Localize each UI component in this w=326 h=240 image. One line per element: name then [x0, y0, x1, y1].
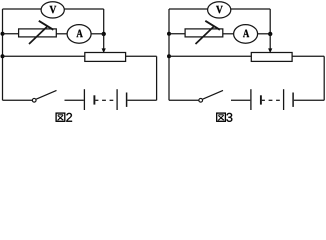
wire battery to right rail fig3: [294, 99, 324, 101]
wire top left segment fig3: [169, 8, 208, 10]
wire ammeter to node fig3: [258, 33, 271, 35]
wire battery to right rail: [127, 99, 156, 101]
wire right rail: [156, 56, 158, 100]
resistor R1 rheostat body fig3: [185, 29, 223, 37]
label Fig2 glyph tu: [56, 113, 65, 121]
wire rheostat to ammeter: [56, 33, 67, 35]
wire switch to battery: [65, 99, 84, 101]
wire slide row left fig3: [169, 55, 251, 57]
battery B1 short plate 1 fig3: [260, 95, 262, 104]
resistor R1 arrow shaft: [29, 26, 47, 44]
wiper wire down: [103, 34, 105, 49]
wire top right segment fig3: [231, 8, 270, 10]
wire right upper rail fig3: [269, 9, 271, 34]
node junction dot left lower fig3: [167, 54, 171, 58]
wire ammeter row left fig3: [169, 33, 185, 35]
wire slide row right: [126, 55, 157, 57]
battery B1 short plate 2 fig3: [292, 93, 294, 107]
wire rheostat to ammeter fig3: [223, 33, 234, 35]
label Fig3 digit: [226, 113, 232, 122]
label Fig3 glyph tu: [217, 113, 226, 121]
resistor R1 arrow head fig3: [205, 21, 220, 30]
wire bottom left: [3, 99, 33, 101]
ammeter A fig3: [234, 25, 258, 44]
battery B1 long plate 2: [116, 89, 118, 110]
battery B1 dash 2 fig3: [276, 99, 280, 101]
wire top left segment: [3, 8, 42, 10]
wire ammeter row left: [3, 33, 19, 35]
battery B1 dash 1: [102, 99, 106, 101]
node junction dot left upper fig3: [167, 32, 171, 36]
resistor R2 slide rheostat body fig3: [251, 53, 292, 62]
wire switch to battery fig3: [231, 99, 250, 101]
switch S1 pivot: [32, 98, 36, 102]
switch S1 lever: [36, 90, 56, 99]
wire right upper rail: [103, 9, 105, 34]
resistor R2 slide rheostat body: [85, 53, 126, 62]
wire slide row left: [3, 55, 85, 57]
ammeter A: [67, 25, 91, 44]
wire right rail fig3: [323, 56, 325, 100]
resistor R1 rheostat body: [19, 29, 57, 37]
battery B1 dash 1 fig3: [269, 99, 273, 101]
node junction dot left lower: [1, 54, 5, 58]
switch S1 lever fig3: [203, 90, 223, 99]
battery B1 long plate 1: [83, 89, 85, 110]
node junction dot left upper: [1, 32, 5, 36]
switch S1 pivot fig3: [199, 98, 203, 102]
resistor R1 arrow head: [39, 21, 54, 30]
battery B1 long plate 1 fig3: [250, 89, 252, 110]
battery B1 dash 2: [110, 99, 114, 101]
battery B1 long plate 2 fig3: [283, 89, 285, 110]
wire left rail: [2, 9, 4, 100]
label Fig2 digit: [66, 113, 72, 122]
wiper wire down fig3: [269, 34, 271, 49]
wire slide row right fig3: [292, 55, 324, 57]
battery B1 stub fig3: [262, 99, 265, 101]
battery B1 short plate 2: [126, 93, 128, 107]
node junction dot right: [102, 32, 106, 36]
wiper arrow head: [102, 48, 106, 53]
node junction dot right fig3: [268, 32, 272, 36]
voltmeter V: [41, 2, 64, 18]
wire bottom left fig3: [169, 99, 199, 101]
voltmeter V fig3: [208, 2, 231, 18]
wiper arrow head fig3: [268, 48, 272, 53]
wire left rail fig3: [168, 9, 170, 100]
wire top right segment: [64, 8, 103, 10]
battery B1 stub: [95, 99, 98, 101]
resistor R1 arrow shaft fig3: [196, 26, 214, 44]
wire ammeter to node: [91, 33, 104, 35]
battery B1 short plate 1: [93, 95, 95, 104]
